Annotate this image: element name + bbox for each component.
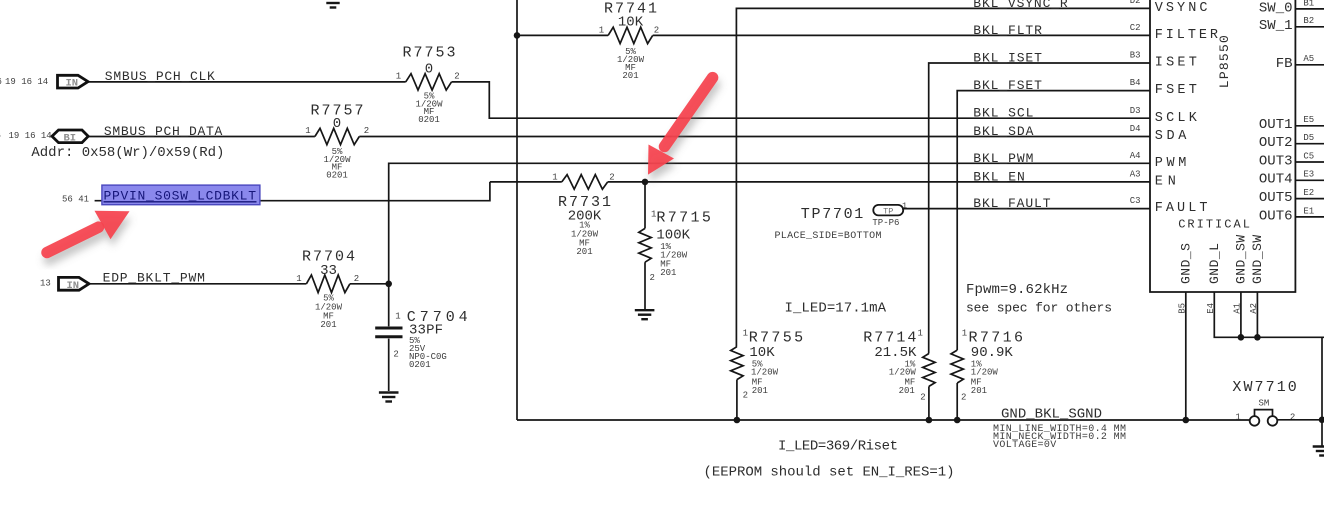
net label BKL_SDA [973, 124, 1033, 139]
svg-text:(EEPROM should set EN_I_RES=1): (EEPROM should set EN_I_RES=1) [704, 465, 955, 481]
pin E5 OUT1 [1259, 115, 1324, 133]
junction node PWM / C7704 [385, 281, 392, 288]
pin D5 OUT2 [1259, 133, 1324, 151]
ground (below R7715) [635, 310, 655, 319]
pin A1 GND_SW [1232, 235, 1248, 314]
svg-text:FB: FB [1276, 56, 1293, 72]
text see spec for others [966, 301, 1112, 316]
resistor R7757 [305, 103, 369, 181]
junction node A1 [1238, 334, 1245, 341]
svg-text:OUT4: OUT4 [1259, 172, 1293, 188]
net label BKL_FSET [973, 78, 1042, 93]
annotation arrow 1 (points at EN junction) [648, 78, 713, 175]
ground (top, partially cut) [323, 0, 343, 8]
text EEPROM note [704, 465, 955, 481]
svg-text:BKL_SCL: BKL_SCL [973, 106, 1033, 121]
svg-text:19 16 14: 19 16 14 [5, 77, 48, 87]
net label BKL_FLTR [973, 23, 1042, 38]
svg-text:IN: IN [67, 280, 80, 292]
junction node B5/SGND [1183, 417, 1190, 424]
svg-text:EDP_BKLT_PWM: EDP_BKLT_PWM [103, 271, 205, 286]
svg-text:B4: B4 [1130, 78, 1141, 88]
svg-text:1/20W: 1/20W [889, 368, 917, 378]
resistor R7704 [296, 249, 359, 331]
wire net GND_BKL_SGND rail [517, 419, 1250, 421]
wire net BKL_PWM (to chip) [389, 163, 1150, 283]
junction node R7755/SGND [734, 417, 741, 424]
svg-text:2: 2 [454, 72, 459, 82]
pin B3 ISET [1130, 51, 1197, 71]
port BI (SMBUS_PCH_DATA) [52, 130, 88, 144]
pin D3 SCLK [1130, 106, 1198, 126]
resistor R7741 [599, 1, 659, 82]
svg-text:OUT2: OUT2 [1259, 135, 1293, 151]
wire net PPVIN_S0SW_LCDBKLT to EN [95, 182, 490, 201]
svg-text:10K: 10K [749, 345, 775, 361]
test point TP7701 [775, 201, 908, 242]
text I_LED=17.1mA [785, 301, 887, 317]
net label BKL_FAULT [973, 196, 1050, 211]
svg-text:D4: D4 [1130, 124, 1141, 134]
pin E3 OUT4 [1259, 170, 1324, 188]
svg-text:TP: TP [883, 206, 893, 216]
svg-text:D2: D2 [1130, 0, 1141, 6]
svg-text:A3: A3 [1130, 170, 1141, 180]
svg-text:E5: E5 [1303, 115, 1314, 125]
node label SMBUS_PCH_CLK [105, 69, 215, 84]
text I_LED=369/Riset [778, 439, 898, 455]
svg-text:B1: B1 [1303, 0, 1314, 8]
net label BKL_EN [973, 169, 1025, 184]
svg-text:A5: A5 [1303, 54, 1314, 64]
text MIN_LINE_WIDTH / MIN_NECK_WIDTH / VOLTAGE [993, 424, 1126, 451]
sheet refs 19 16 14 (DATA row) [0, 131, 52, 141]
svg-text:see spec for others: see spec for others [966, 301, 1112, 316]
pin A4 PWM [1130, 151, 1187, 171]
svg-text:2: 2 [654, 26, 659, 36]
svg-text:D3: D3 [1130, 106, 1141, 116]
pin B1 SW_0 [1259, 0, 1324, 16]
pin B4 FSET [1130, 78, 1197, 98]
pin B2 SW_1 [1259, 16, 1324, 34]
svg-text:Fpwm=9.62kHz: Fpwm=9.62kHz [966, 282, 1068, 298]
connector XW7710 [1232, 379, 1296, 426]
svg-text:PLACE_SIDE=BOTTOM: PLACE_SIDE=BOTTOM [775, 231, 882, 242]
svg-text:D5: D5 [1303, 133, 1314, 143]
pin A5 FB [1276, 54, 1324, 72]
junction node EN / R7715 [642, 179, 649, 186]
svg-text:C5: C5 [1303, 151, 1314, 161]
svg-text:2: 2 [650, 273, 655, 283]
svg-text:0: 0 [333, 116, 341, 132]
wire net BKL_EN [490, 181, 1150, 183]
svg-text:1: 1 [743, 329, 748, 339]
svg-text:R7716: R7716 [969, 329, 1024, 346]
wire net BKL_FAULT [902, 208, 1150, 210]
pin D4 SDA [1130, 124, 1188, 144]
svg-text:1: 1 [902, 201, 907, 211]
svg-text:2: 2 [920, 392, 925, 402]
svg-text:0201: 0201 [418, 115, 440, 125]
svg-text:1/20W: 1/20W [751, 368, 779, 378]
node label EDP_BKLT_PWM [103, 271, 205, 286]
resistor R7714 (vertical) [863, 329, 935, 421]
svg-text:201: 201 [622, 71, 638, 81]
svg-text:R7715: R7715 [656, 210, 711, 227]
svg-text:IN: IN [66, 78, 79, 90]
svg-text:201: 201 [320, 320, 336, 330]
node label GND_BKL_SGND [1001, 407, 1102, 423]
svg-text:BKL_VSYNC_R: BKL_VSYNC_R [973, 0, 1068, 11]
text Addr: 0x58(Wr)/0x59(Rd) [31, 145, 224, 161]
svg-text:21.5K: 21.5K [874, 345, 917, 361]
junction node R7714/SGND [926, 417, 933, 424]
svg-text:BKL_FLTR: BKL_FLTR [973, 23, 1042, 38]
svg-text:BKL_FSET: BKL_FSET [973, 78, 1042, 93]
svg-text:56 41: 56 41 [62, 195, 89, 205]
svg-text:FAULT: FAULT [1155, 201, 1208, 216]
svg-text:1: 1 [396, 72, 401, 82]
svg-text:1: 1 [599, 26, 604, 36]
svg-text:BKL_SDA: BKL_SDA [973, 124, 1033, 139]
pin D2 VSYNC [1130, 0, 1208, 16]
svg-text:2: 2 [354, 274, 359, 284]
svg-text:1: 1 [305, 126, 310, 136]
svg-text:E2: E2 [1303, 188, 1314, 198]
svg-text:TP-P6: TP-P6 [872, 218, 899, 228]
pin C5 OUT3 [1259, 151, 1324, 169]
pin A2 GND_SW [1249, 235, 1265, 314]
svg-text:B3: B3 [1130, 51, 1141, 61]
svg-text:10K: 10K [618, 15, 644, 31]
svg-text:BKL_PWM: BKL_PWM [973, 151, 1033, 166]
ground (bottom right, clipped) [1313, 447, 1324, 456]
junction node FILTER column [514, 32, 521, 39]
svg-text:19 16 14: 19 16 14 [9, 131, 52, 141]
port IN (EDP_BKLT_PWM) [59, 277, 90, 291]
capacitor C7704 [375, 284, 467, 391]
svg-text:33: 33 [320, 263, 337, 279]
wire pin E4 / A1 / A2 ground bus [1214, 292, 1324, 337]
svg-text:GND_BKL_SGND: GND_BKL_SGND [1001, 407, 1102, 423]
wire XW7710 pin2 to ground [1277, 337, 1322, 446]
resistor R7715 (vertical) [639, 182, 711, 309]
svg-text:SDA: SDA [1155, 129, 1188, 144]
resistor R7755 (vertical) [731, 329, 803, 421]
svg-text:201: 201 [660, 268, 676, 278]
annotation arrow 2 (points at PPVIN_S0SW_LCDBKLT) [47, 211, 130, 253]
svg-text:R7753: R7753 [403, 45, 456, 62]
svg-text:1: 1 [962, 329, 967, 339]
junction node XW7710/gnd [1319, 417, 1324, 424]
svg-text:VOLTAGE=0V: VOLTAGE=0V [993, 440, 1056, 451]
resistor R7716 (vertical) [951, 329, 1023, 421]
svg-text:SM: SM [1259, 398, 1270, 408]
svg-text:6: 6 [0, 77, 2, 87]
sheet refs 56 41 (PPVIN row) [62, 195, 89, 205]
svg-text:OUT6: OUT6 [1259, 208, 1293, 224]
IC U7700 LP8550 outline [1150, 0, 1295, 292]
svg-text:201: 201 [899, 386, 915, 396]
svg-text:OUT1: OUT1 [1259, 117, 1293, 133]
port IN (SMBUS_PCH_CLK) [58, 75, 89, 89]
svg-text:1/20W: 1/20W [971, 368, 999, 378]
svg-text:SW_1: SW_1 [1259, 18, 1293, 34]
wire net BKL_ISET [929, 63, 1150, 354]
svg-text:E1: E1 [1303, 206, 1314, 216]
svg-text:1: 1 [1235, 412, 1240, 422]
sheet ref 13 (EDP row) [40, 279, 51, 289]
resistor R7731 [552, 173, 614, 258]
svg-text:B2: B2 [1303, 16, 1314, 26]
net label BKL_ISET [973, 51, 1042, 66]
svg-text:E3: E3 [1303, 170, 1314, 180]
svg-text:C2: C2 [1130, 23, 1141, 33]
text Fpwm=9.62kHz [966, 282, 1068, 298]
svg-text:201: 201 [576, 247, 592, 257]
wire net BKL_FSET [957, 91, 1150, 351]
IC label LP8550 [1217, 35, 1232, 88]
wire net BKL_VSYNC_R [736, 8, 1150, 346]
node label SMBUS_PCH_DATA [104, 124, 223, 139]
svg-text:OUT5: OUT5 [1259, 190, 1293, 206]
svg-text:Addr: 0x58(Wr)/0x59(Rd): Addr: 0x58(Wr)/0x59(Rd) [31, 145, 224, 161]
pin B5 GND_S [1177, 243, 1193, 314]
svg-text:GND_S: GND_S [1178, 243, 1193, 284]
pin C2 FILTER [1130, 23, 1218, 43]
svg-text:1: 1 [395, 312, 400, 322]
svg-text:90.9K: 90.9K [971, 345, 1014, 361]
svg-text:SMBUS_PCH_DATA: SMBUS_PCH_DATA [104, 124, 223, 139]
ground (below C7704) [379, 393, 399, 402]
highlighted net name PPVIN_S0SW_LCDBKLT [102, 185, 260, 205]
svg-text:PPVIN_S0SW_LCDBKLT: PPVIN_S0SW_LCDBKLT [104, 188, 257, 203]
wire net BKL_FLTR [517, 34, 1150, 36]
svg-text:2: 2 [743, 391, 748, 401]
junction node R7716/SGND [954, 417, 961, 424]
svg-text:PWM: PWM [1155, 156, 1187, 171]
svg-text:OUT3: OUT3 [1259, 153, 1293, 169]
svg-text:2: 2 [393, 350, 398, 360]
sheet refs 19 16 14 (CLK row) [0, 77, 48, 87]
svg-text:SW_0: SW_0 [1259, 0, 1293, 16]
pin C3 FAULT [1130, 196, 1208, 216]
resistor R7753 [396, 45, 460, 125]
wire net SMBUS_PCH_CLK / BKL_SCL [88, 82, 1150, 118]
wire net SMBUS_PCH_DATA / BKL_SDA [88, 136, 1150, 138]
svg-text:GND_SW: GND_SW [1234, 235, 1249, 284]
pin E4 GND_L [1206, 243, 1222, 314]
svg-text:0201: 0201 [326, 170, 348, 180]
svg-text:I_LED=17.1mA: I_LED=17.1mA [785, 301, 887, 317]
svg-text:2: 2 [1290, 412, 1295, 422]
svg-text:2: 2 [364, 126, 369, 136]
svg-text:1: 1 [552, 173, 557, 183]
svg-text:0: 0 [425, 62, 433, 78]
pin E1 OUT6 [1259, 206, 1324, 224]
wire net EDP_BKLT_PWM [89, 283, 389, 285]
svg-text:13: 13 [40, 279, 51, 289]
svg-text:1: 1 [296, 274, 301, 284]
pin A3 EN [1130, 170, 1176, 190]
svg-text:C3: C3 [1130, 196, 1141, 206]
svg-text:2: 2 [609, 173, 614, 183]
svg-text:GND_SW: GND_SW [1250, 235, 1265, 284]
svg-text:R7714: R7714 [863, 329, 916, 346]
pin E2 OUT5 [1259, 188, 1324, 206]
text CRITICAL [1178, 217, 1250, 231]
svg-text:SMBUS_PCH_CLK: SMBUS_PCH_CLK [105, 69, 215, 84]
svg-text:2: 2 [961, 392, 966, 402]
svg-text:BI: BI [64, 132, 77, 144]
svg-text:R7755: R7755 [749, 329, 803, 346]
svg-text:BKL_EN: BKL_EN [973, 169, 1025, 184]
svg-text:0201: 0201 [409, 360, 431, 370]
svg-text:6: 6 [0, 131, 1, 141]
svg-text:201: 201 [971, 386, 987, 396]
net label BKL_VSYNC_R [973, 0, 1068, 11]
svg-text:1: 1 [918, 329, 923, 339]
svg-text:I_LED=369/Riset: I_LED=369/Riset [778, 439, 898, 455]
wire vertical FILTER net (x=517) [516, 0, 518, 420]
net label BKL_SCL [973, 106, 1033, 121]
wire pin B5 to SGND [1185, 292, 1187, 420]
svg-text:BKL_ISET: BKL_ISET [973, 51, 1042, 66]
svg-text:A4: A4 [1130, 151, 1141, 161]
svg-text:GND_L: GND_L [1207, 243, 1222, 284]
junction node A2 [1254, 334, 1261, 341]
net label BKL_PWM [973, 151, 1033, 166]
svg-text:VSYNC: VSYNC [1155, 1, 1208, 16]
svg-text:BKL_FAULT: BKL_FAULT [973, 196, 1050, 211]
svg-text:201: 201 [752, 386, 768, 396]
